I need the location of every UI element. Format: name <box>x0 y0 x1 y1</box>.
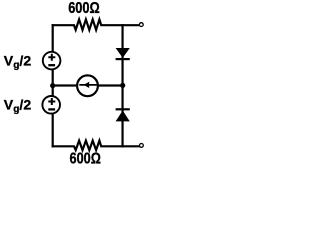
svg-text:Vg/2: Vg/2 <box>4 53 32 71</box>
svg-text:600Ω: 600Ω <box>70 151 102 167</box>
svg-text:Vg/2: Vg/2 <box>4 97 32 115</box>
svg-text:600Ω: 600Ω <box>68 0 100 17</box>
